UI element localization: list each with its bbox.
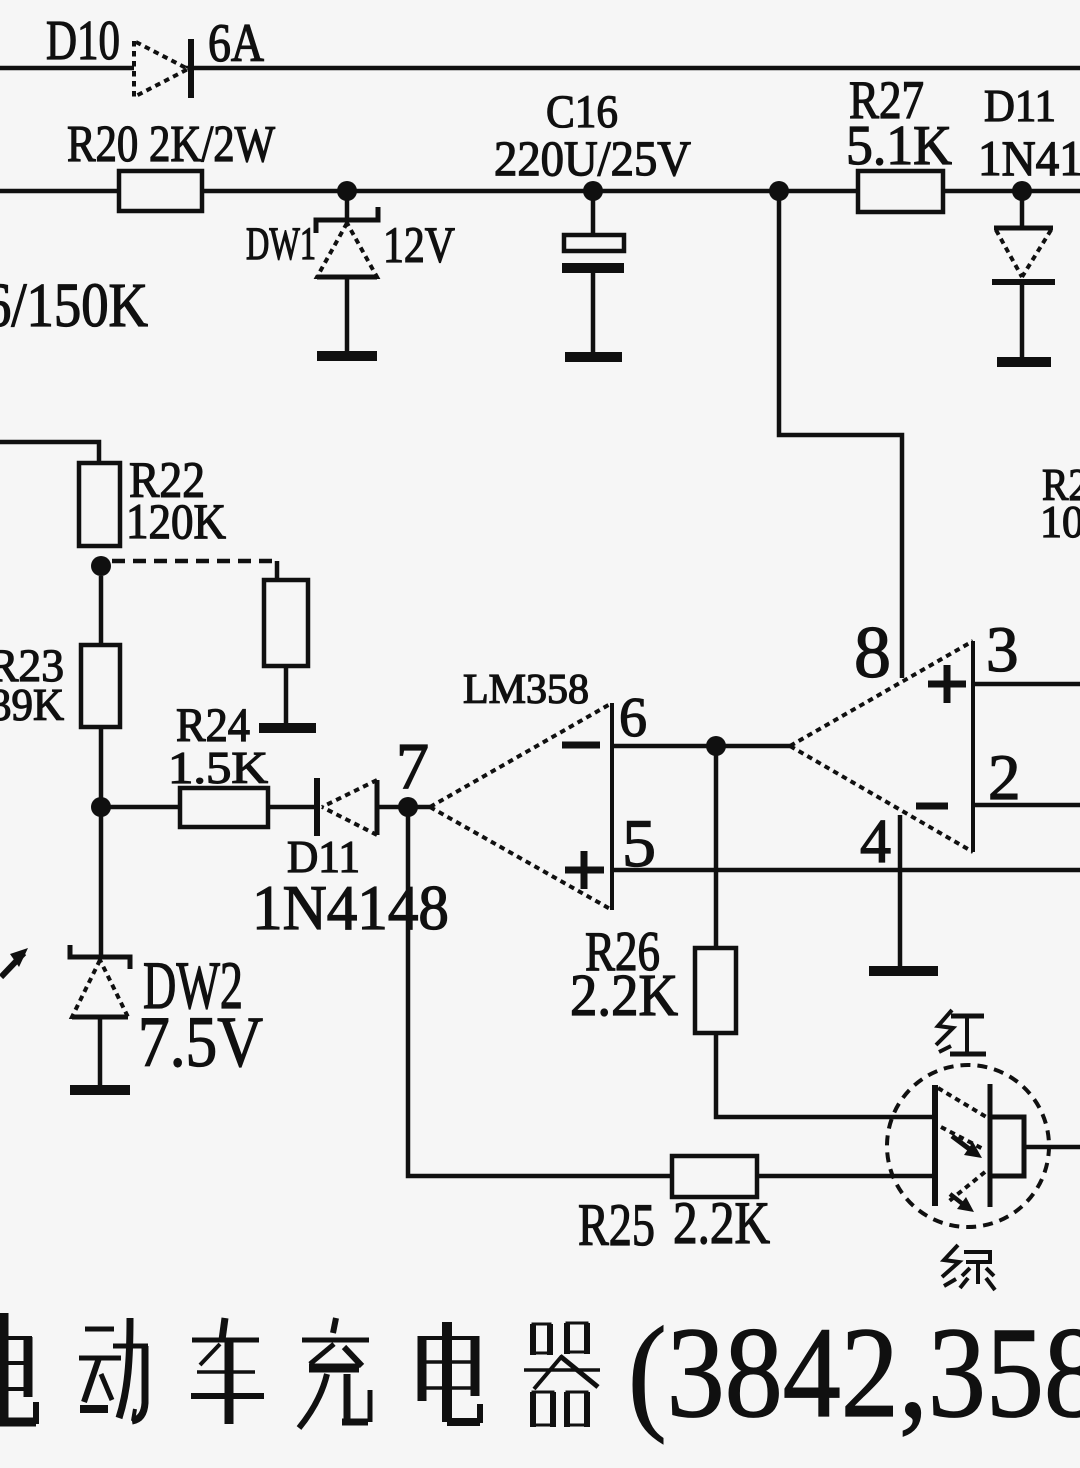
ground DW2 [70,1085,130,1095]
wire R23 down [99,727,104,807]
diode D11 top [992,191,1055,358]
cursor arrow [1,948,28,977]
svg-text:7.5V: 7.5V [138,1002,263,1082]
svg-text:6A: 6A [208,13,264,73]
title text CJK che [191,1318,264,1424]
svg-text:6: 6 [619,687,647,749]
resistor unlabeled tap [264,580,308,666]
resistor R26 [695,948,736,1033]
wire pin6 to op-amp2 [612,744,790,749]
svg-text:R25: R25 [578,1192,655,1258]
wire R24 to D11 [268,805,317,810]
ground DW1 [317,351,377,361]
title text CJK dian2 [418,1322,480,1423]
wire second rail [0,189,1080,194]
svg-text:8: 8 [854,612,891,694]
diode D10 [134,39,191,98]
ground pin4 [869,966,938,976]
wire to R24 [101,805,180,810]
LED arrow center [952,1136,982,1158]
zener DW1 [316,191,378,352]
svg-text:1.5K: 1.5K [168,743,269,793]
op-amp U1A [790,641,973,852]
op-amp U1B LM358 [430,703,612,910]
diode D11 mid [317,778,398,836]
svg-text:39K: 39K [0,680,64,730]
svg-text:12V: 12V [383,218,455,274]
title text CJK qi [524,1323,600,1427]
resistor R23 [81,645,120,727]
title text CJK chong [299,1318,370,1428]
node junction D11 top [1012,181,1032,201]
node junction op-amp1 output [398,797,418,817]
svg-text:DW1: DW1 [246,218,316,270]
svg-text:120K: 120K [126,493,226,549]
wire tap connector [275,561,280,580]
svg-text:LM358: LM358 [463,667,589,713]
wire op-amp1 out down to R25 [408,807,672,1176]
resistor R24 [180,788,268,827]
svg-text:220U/25V: 220U/25V [494,130,691,186]
LED bottom triangle edge [948,1172,985,1202]
svg-text:5.1K: 5.1K [846,115,952,177]
LED right bar [988,1084,993,1207]
label green CJK lv [942,1245,995,1290]
svg-text:2.2K: 2.2K [570,962,678,1028]
resistor R20 [119,171,202,211]
label red CJK hong [936,1010,986,1054]
svg-text:2.2K: 2.2K [673,1190,770,1256]
ground tap [259,723,316,733]
wire top rail [0,66,1080,71]
wire pin2 [973,803,1080,808]
svg-text:1N4148: 1N4148 [978,130,1080,186]
svg-text:7: 7 [396,730,429,803]
wire junction to apex [398,805,430,810]
title text CJK dong [79,1318,148,1421]
title text CJK dian1 partial [0,1313,36,1424]
svg-text:R20 2K/2W: R20 2K/2W [67,116,275,173]
node junction pin6 [706,736,726,756]
svg-text:4: 4 [860,808,891,876]
LED top triangle [938,1088,988,1118]
svg-text:1N4148: 1N4148 [252,873,449,943]
LED mid triangle edge [941,1127,985,1150]
svg-text:D11: D11 [984,81,1056,131]
svg-text:(3842,358: (3842,358 [628,1301,1080,1445]
node junction C16 [583,181,603,201]
resistor R25 [672,1156,757,1197]
node junction R22/R23 [91,556,111,576]
ground D11 top [997,357,1051,367]
wire pin4 to ground [898,815,903,967]
svg-text:100: 100 [1040,496,1080,547]
wire dashed tap [112,559,277,564]
LED right bracket [990,1117,1024,1176]
resistor R27 [858,171,943,212]
svg-text:D10: D10 [46,10,120,72]
wire pin6 node down to R26 [714,746,719,948]
node junction R24 row [91,797,111,817]
wire left to R22 [0,442,99,463]
wire pin3 [973,682,1080,687]
svg-text:3: 3 [986,614,1019,686]
resistor R22 [79,463,120,546]
wire LED out [1026,1145,1080,1150]
svg-text:6/150K: 6/150K [0,272,148,340]
wire pin5 long [612,868,1080,873]
wire tap to ground [284,666,289,724]
wire to op-amp pin 8 [779,191,902,678]
wire R25 to LED [757,1174,933,1179]
zener DW2 [70,807,130,1086]
LED left bar [932,1085,938,1206]
LED arrow bottom [950,1194,974,1212]
ground C16 [565,352,622,362]
capacitor C16 [562,191,624,352]
wire R22 to R23 [99,576,104,645]
wire R26 to LED [716,1033,933,1117]
LED dual indicator circle [887,1065,1049,1227]
node junction mid rail [769,181,789,201]
node junction DW1 [337,181,357,201]
